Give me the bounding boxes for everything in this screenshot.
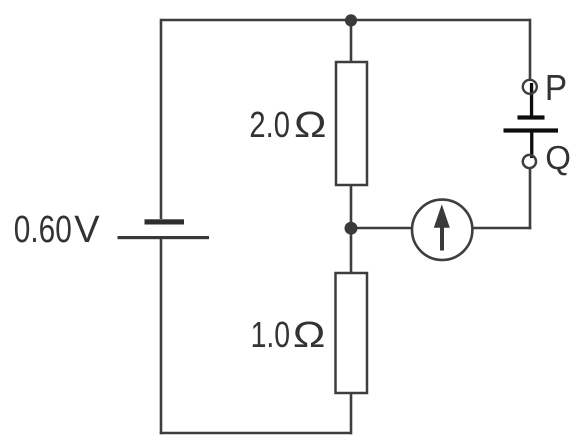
svg-text:P: P bbox=[545, 67, 567, 108]
svg-text:V: V bbox=[74, 209, 100, 251]
svg-text:2.0: 2.0 bbox=[249, 104, 290, 145]
svg-text:1.0: 1.0 bbox=[251, 314, 291, 355]
svg-text:Q: Q bbox=[545, 139, 571, 176]
svg-text:0.60: 0.60 bbox=[14, 209, 72, 251]
svg-text:Ω: Ω bbox=[293, 314, 326, 355]
svg-text:Ω: Ω bbox=[294, 104, 327, 145]
